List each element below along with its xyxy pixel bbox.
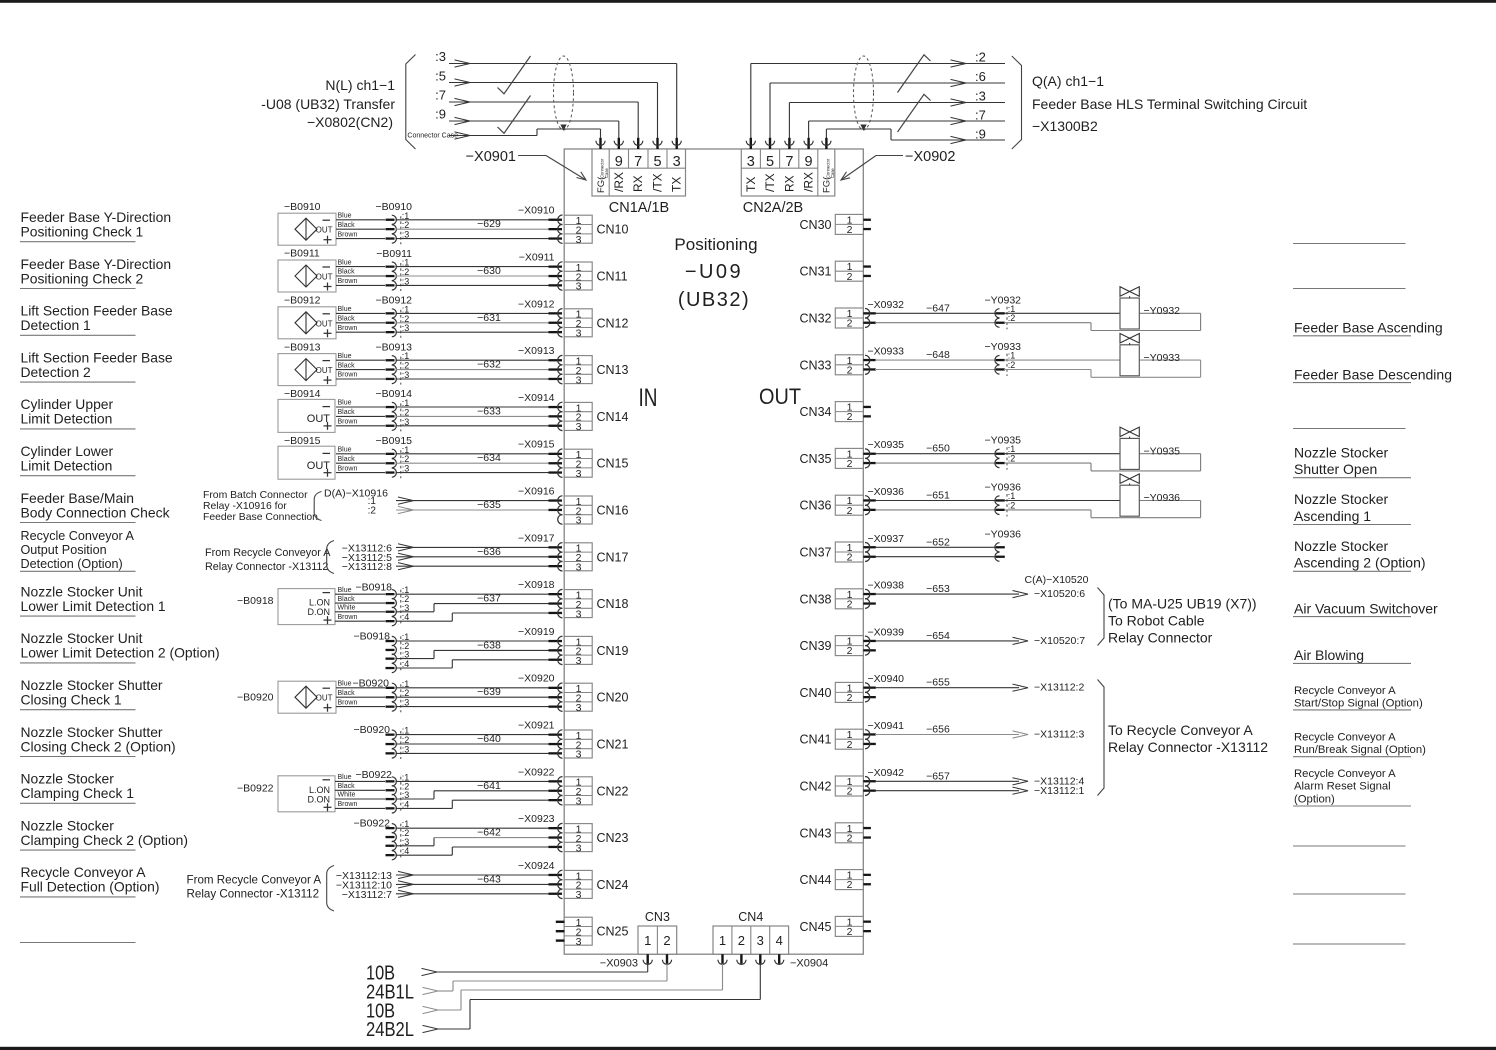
svg-text:Black: Black bbox=[338, 690, 356, 697]
svg-text:−X0802(CN2): −X0802(CN2) bbox=[307, 114, 393, 130]
underline CN42 label bbox=[1293, 805, 1411, 807]
svg-text:-U08 (UB32) Transfer: -U08 (UB32) Transfer bbox=[261, 96, 395, 112]
svg-text:−X0942: −X0942 bbox=[868, 767, 905, 779]
svg-text:OUT: OUT bbox=[759, 384, 801, 409]
wire CN2A FG to Q(A):9 bbox=[826, 129, 1005, 144]
pins CN15 bbox=[549, 449, 563, 477]
svg-text:Blue: Blue bbox=[338, 259, 352, 266]
svg-text:9: 9 bbox=[805, 154, 813, 170]
labels -X13112:4 -X13112:1 bbox=[1034, 775, 1084, 797]
label text CN33 function bbox=[1294, 366, 1452, 382]
svg-text:Recycle Conveyor A: Recycle Conveyor A bbox=[1294, 732, 1396, 744]
underline CN33 label bbox=[1293, 382, 1411, 384]
wires CN13 sensor to break bbox=[336, 360, 385, 379]
connector CN33 bbox=[835, 355, 863, 377]
svg-text:IN: IN bbox=[639, 384, 658, 412]
label text CN38 function bbox=[1294, 600, 1438, 616]
wire N(L):9 to CN1A pin 9 bbox=[449, 117, 619, 138]
svg-text:2: 2 bbox=[847, 786, 853, 798]
svg-text:Feeder Base Connection: Feeder Base Connection bbox=[203, 512, 318, 523]
svg-text:CN20: CN20 bbox=[597, 691, 629, 705]
svg-text:Closing Check 2 (Option): Closing Check 2 (Option) bbox=[21, 738, 176, 754]
underline CN45 empty label bbox=[1293, 943, 1406, 945]
svg-text:CN1A/1B: CN1A/1B bbox=[609, 200, 669, 216]
svg-text:−633: −633 bbox=[477, 405, 501, 417]
cable -630 wires to CN11 bbox=[396, 267, 554, 286]
connector CN43 bbox=[835, 823, 863, 845]
brace recycle connector bbox=[327, 541, 334, 574]
underline CN23 label bbox=[20, 849, 136, 851]
svg-text:5: 5 bbox=[653, 154, 661, 170]
wire CN38 to −X10520:6 bbox=[875, 591, 1028, 598]
sensor B0920 box bbox=[278, 681, 336, 713]
label text CN11 function bbox=[21, 256, 172, 287]
svg-text:3: 3 bbox=[576, 608, 582, 620]
connector CN41 bbox=[835, 729, 863, 751]
pins CN24 bbox=[549, 870, 563, 898]
svg-text:−X0919: −X0919 bbox=[518, 626, 555, 638]
svg-text:Relay Connector: Relay Connector bbox=[1108, 630, 1213, 646]
svg-text:2: 2 bbox=[738, 933, 745, 948]
underline CN36 label bbox=[1293, 524, 1411, 526]
cable break connector CN22 bbox=[386, 772, 410, 813]
svg-text:Feeder Base Ascending: Feeder Base Ascending bbox=[1294, 320, 1443, 336]
wires CN37 to break bbox=[875, 547, 996, 556]
wire color labels CN14 bbox=[338, 400, 358, 426]
underline CN22 label bbox=[20, 802, 136, 804]
svg-text:−X0914: −X0914 bbox=[518, 392, 555, 404]
brace recycle connector bbox=[327, 866, 334, 912]
wires break to valve -Y0933 bbox=[1004, 360, 1201, 377]
label text CN16 function bbox=[21, 490, 170, 521]
svg-text:2: 2 bbox=[847, 411, 853, 423]
svg-text:2: 2 bbox=[847, 645, 853, 657]
svg-text:−637: −637 bbox=[477, 593, 501, 605]
wires CN36 to break bbox=[875, 501, 996, 510]
svg-text:−X0903: −X0903 bbox=[600, 958, 638, 970]
svg-text:−Y0935: −Y0935 bbox=[1144, 445, 1181, 457]
pins CN19 bbox=[549, 636, 563, 664]
svg-text:Blue: Blue bbox=[338, 774, 352, 781]
svg-text:−X0911: −X0911 bbox=[519, 252, 555, 264]
svg-text:Case: Case bbox=[830, 168, 835, 178]
wire color labels CN10 bbox=[338, 213, 358, 239]
cable break connector CN18 bbox=[386, 585, 410, 626]
svg-text:CN18: CN18 bbox=[597, 597, 629, 611]
svg-text:−X0902: −X0902 bbox=[905, 149, 955, 165]
svg-text:−B0910: −B0910 bbox=[284, 201, 321, 213]
svg-text:CN12: CN12 bbox=[597, 316, 629, 330]
svg-text:Air Vacuum Switchover: Air Vacuum Switchover bbox=[1294, 600, 1438, 616]
svg-text:−X13112:7: −X13112:7 bbox=[342, 889, 392, 901]
labels X13112 pins bbox=[336, 870, 392, 901]
svg-text:−X0940: −X0940 bbox=[868, 673, 905, 685]
svg-text:−641: −641 bbox=[477, 780, 501, 792]
right harness pin labels bbox=[975, 50, 986, 142]
svg-text:−X0922: −X0922 bbox=[518, 766, 555, 778]
svg-text:−653: −653 bbox=[926, 583, 950, 595]
pins CN22 bbox=[549, 777, 563, 805]
svg-text:Full Detection (Option): Full Detection (Option) bbox=[21, 879, 160, 895]
svg-text:Positioning Check 1: Positioning Check 1 bbox=[21, 224, 144, 240]
svg-text:Case: Case bbox=[604, 168, 609, 178]
svg-text:TX: TX bbox=[670, 177, 684, 192]
svg-text:/TX: /TX bbox=[763, 173, 777, 192]
wires CN15 sensor to break bbox=[336, 454, 385, 473]
svg-text:Blue: Blue bbox=[338, 587, 352, 594]
svg-text:Detection 2: Detection 2 bbox=[21, 364, 92, 380]
svg-text:Recycle Conveyor A: Recycle Conveyor A bbox=[21, 529, 135, 543]
svg-text:From Recycle Conveyor A: From Recycle Conveyor A bbox=[205, 547, 331, 559]
connector CN12 bbox=[564, 309, 592, 340]
svg-text:−655: −655 bbox=[926, 677, 950, 689]
wires break to valve -Y0935 bbox=[1004, 454, 1201, 471]
label text CN20 function bbox=[21, 677, 163, 708]
connector CN44 bbox=[835, 870, 863, 892]
svg-text:Closing Check 1: Closing Check 1 bbox=[21, 692, 122, 708]
underline CN25 label bbox=[20, 942, 136, 944]
svg-text:2: 2 bbox=[847, 364, 853, 376]
svg-text:−Y0932: −Y0932 bbox=[985, 294, 1022, 306]
svg-text:2: 2 bbox=[847, 598, 853, 610]
left harness pin labels bbox=[407, 49, 458, 140]
pins CN33 bbox=[863, 355, 876, 374]
svg-text:−X0935: −X0935 bbox=[868, 439, 905, 451]
pins CN13 bbox=[549, 355, 563, 383]
svg-text:Limit Detection: Limit Detection bbox=[21, 458, 113, 474]
label text CN18 function bbox=[21, 583, 166, 614]
wire color labels CN13 bbox=[338, 353, 358, 379]
svg-text:−B0913: −B0913 bbox=[284, 341, 321, 353]
pins CN17 bbox=[549, 543, 563, 571]
label text CN19 function bbox=[21, 630, 220, 661]
connector CN30 bbox=[835, 214, 863, 236]
connector CN32 bbox=[835, 308, 863, 330]
svg-text:OUT: OUT bbox=[316, 319, 333, 328]
svg-text:OUT: OUT bbox=[316, 694, 333, 703]
label text CN40 function bbox=[1294, 685, 1423, 710]
twisted pair mark right 1 bbox=[898, 55, 931, 93]
svg-text:−X0913: −X0913 bbox=[518, 345, 555, 357]
cable break connector CN12 bbox=[386, 304, 410, 337]
svg-text:OUT: OUT bbox=[316, 273, 333, 282]
underline CN40 label bbox=[1293, 709, 1411, 711]
bottom border bar bbox=[0, 1047, 1496, 1050]
svg-text:CN15: CN15 bbox=[597, 457, 629, 471]
svg-text:−X0904: −X0904 bbox=[790, 958, 828, 970]
svg-text:Lower Limit Detection 1: Lower Limit Detection 1 bbox=[21, 598, 166, 614]
svg-text:−X0936: −X0936 bbox=[868, 486, 905, 498]
wire connector case to CN1A FG bbox=[449, 129, 601, 139]
svg-text:L.ON: L.ON bbox=[309, 785, 330, 795]
labels X13112 pins bbox=[342, 542, 392, 573]
svg-text:2: 2 bbox=[847, 926, 853, 938]
svg-text:(Option): (Option) bbox=[1294, 794, 1335, 806]
svg-text:−Y0932: −Y0932 bbox=[1144, 305, 1181, 317]
svg-text:From Batch Connector: From Batch Connector bbox=[203, 490, 308, 501]
svg-text:Blue: Blue bbox=[338, 681, 352, 688]
unit U09 main outline bbox=[564, 149, 863, 954]
stub pins CN45 bbox=[863, 921, 871, 933]
svg-text:−X10520:7: −X10520:7 bbox=[1034, 635, 1085, 647]
cable -641 wires to CN22 bbox=[396, 781, 554, 808]
svg-text:3: 3 bbox=[576, 655, 582, 667]
svg-text:Blue: Blue bbox=[338, 213, 352, 220]
svg-text:−629: −629 bbox=[477, 218, 501, 230]
svg-text:2: 2 bbox=[847, 505, 853, 517]
stub pins CN44 bbox=[863, 874, 871, 886]
pins CN16 bbox=[549, 496, 563, 524]
brace robot cable block bbox=[1098, 588, 1105, 646]
solenoid valve Y0936 bbox=[1120, 474, 1139, 516]
svg-text:3: 3 bbox=[576, 468, 582, 480]
cable -629 wires to CN10 bbox=[396, 220, 554, 239]
pin labels X10916 bbox=[368, 496, 377, 516]
underline CN11 label bbox=[20, 288, 136, 290]
connector CN24 bbox=[564, 870, 592, 901]
svg-text::3: :3 bbox=[435, 49, 446, 64]
svg-text:−X0912: −X0912 bbox=[518, 298, 555, 310]
brace left harness bbox=[406, 55, 416, 150]
svg-text::2: :2 bbox=[368, 506, 377, 517]
cable -637 wires to CN18 bbox=[396, 594, 554, 621]
svg-text:CN2A/2B: CN2A/2B bbox=[743, 200, 803, 216]
svg-text:−Y0933: −Y0933 bbox=[1144, 352, 1181, 364]
solenoid valve Y0932 bbox=[1120, 287, 1139, 329]
svg-text:CN35: CN35 bbox=[800, 452, 832, 466]
svg-text:Ascending 2 (Option): Ascending 2 (Option) bbox=[1294, 555, 1426, 571]
underline CN38 label bbox=[1293, 616, 1411, 618]
connector CN1A/1B bbox=[592, 149, 686, 196]
svg-text:Detection 1: Detection 1 bbox=[21, 317, 92, 333]
pins CN35 bbox=[863, 449, 876, 468]
svg-text:Blue: Blue bbox=[338, 353, 352, 360]
svg-text:−647: −647 bbox=[926, 302, 950, 314]
stub pins CN25 bbox=[556, 921, 565, 942]
svg-text:7: 7 bbox=[785, 154, 793, 170]
svg-text:−B0922: −B0922 bbox=[354, 818, 391, 830]
svg-text:White: White bbox=[338, 792, 356, 799]
connector CN39 bbox=[835, 636, 863, 658]
svg-text:CN11: CN11 bbox=[597, 270, 628, 284]
svg-text:4: 4 bbox=[776, 933, 783, 948]
underline CN20 label bbox=[20, 709, 136, 711]
wire 24B1L to CN3 pin2 bbox=[423, 964, 668, 995]
solenoid valve Y0933 bbox=[1120, 334, 1139, 376]
connector CN31 bbox=[835, 261, 863, 283]
svg-text:3: 3 bbox=[576, 796, 582, 808]
svg-text:−654: −654 bbox=[926, 630, 950, 642]
shield symbol left cable bbox=[554, 56, 574, 130]
underline CN31 empty label bbox=[1293, 288, 1406, 290]
svg-text:−X0918: −X0918 bbox=[518, 579, 555, 591]
svg-text:−X0933: −X0933 bbox=[868, 346, 905, 358]
cable -639 wires to CN20 bbox=[396, 688, 554, 707]
connector CN22 bbox=[564, 777, 592, 808]
svg-text:−X0917: −X0917 bbox=[518, 532, 555, 544]
svg-text:Relay Connector -X13112: Relay Connector -X13112 bbox=[187, 887, 320, 900]
label text CN37 function bbox=[1294, 538, 1426, 571]
svg-text:OUT: OUT bbox=[316, 226, 333, 235]
brace recycle conveyor block bbox=[1098, 680, 1105, 796]
wire CN39 to −X10520:7 bbox=[875, 637, 1028, 644]
top border bar bbox=[0, 0, 1496, 3]
svg-text:−B0914: −B0914 bbox=[284, 388, 321, 400]
svg-text:−X0932: −X0932 bbox=[868, 299, 905, 311]
svg-text:CN30: CN30 bbox=[800, 218, 832, 232]
wire color labels CN18 bbox=[338, 587, 358, 621]
svg-text::2: :2 bbox=[1008, 500, 1016, 510]
cable -638 wires to CN19 bbox=[396, 641, 554, 668]
svg-text:Recycle Conveyor A: Recycle Conveyor A bbox=[1294, 768, 1396, 780]
svg-text:−Y0935: −Y0935 bbox=[985, 435, 1022, 447]
svg-text:Shutter Open: Shutter Open bbox=[1294, 461, 1377, 477]
stub pins CN30 bbox=[863, 219, 871, 231]
underline CN32 label bbox=[1293, 335, 1411, 337]
cable -634 wires to CN15 bbox=[396, 454, 554, 473]
svg-text:Air Blowing: Air Blowing bbox=[1294, 647, 1364, 663]
svg-text:L.ON: L.ON bbox=[309, 598, 330, 608]
svg-text:1: 1 bbox=[719, 933, 726, 948]
svg-text:Nozzle Stocker: Nozzle Stocker bbox=[1294, 444, 1388, 460]
cable break connector CN20 bbox=[386, 679, 410, 712]
svg-text:−Y0936: −Y0936 bbox=[985, 528, 1022, 540]
solenoid valve Y0935 bbox=[1120, 427, 1139, 469]
label text CN13 function bbox=[21, 349, 173, 380]
svg-text:−B0911: −B0911 bbox=[284, 248, 320, 260]
connector CN34 bbox=[835, 402, 863, 424]
svg-text:Brown: Brown bbox=[338, 325, 358, 332]
label text CN35 function bbox=[1294, 444, 1388, 477]
svg-text:3: 3 bbox=[747, 154, 755, 170]
wire color labels CN12 bbox=[338, 306, 358, 332]
svg-text:−Y0936: −Y0936 bbox=[985, 482, 1022, 494]
svg-text:CN14: CN14 bbox=[597, 410, 629, 424]
label text CN32 function bbox=[1294, 320, 1443, 336]
svg-text:5: 5 bbox=[766, 154, 774, 170]
underline CN37 label bbox=[1293, 570, 1411, 572]
svg-text:CN16: CN16 bbox=[597, 504, 629, 518]
connector CN21 bbox=[564, 730, 592, 761]
svg-text:−X13112:8: −X13112:8 bbox=[342, 561, 392, 573]
svg-text:Clamping Check 2 (Option): Clamping Check 2 (Option) bbox=[21, 832, 189, 848]
cable break connector CN21 bbox=[386, 726, 410, 759]
svg-text::5: :5 bbox=[435, 69, 446, 84]
underline CN39 label bbox=[1293, 662, 1411, 664]
label text CN36 function bbox=[1294, 491, 1388, 524]
svg-text:−635: −635 bbox=[477, 499, 501, 511]
label text CN42 function bbox=[1294, 768, 1396, 806]
svg-text:3: 3 bbox=[576, 749, 582, 761]
svg-text:7: 7 bbox=[634, 154, 642, 170]
svg-text:From Recycle Conveyor A: From Recycle Conveyor A bbox=[187, 873, 322, 886]
svg-text:−X0924: −X0924 bbox=[518, 860, 555, 872]
svg-text:−X0920: −X0920 bbox=[518, 673, 555, 685]
svg-text:2: 2 bbox=[847, 552, 853, 564]
svg-text:−632: −632 bbox=[477, 359, 501, 371]
svg-text:Black: Black bbox=[338, 596, 356, 603]
svg-text:Ascending 1: Ascending 1 bbox=[1294, 508, 1371, 524]
svg-text:Brown: Brown bbox=[338, 465, 358, 472]
pins CN20 bbox=[549, 683, 563, 711]
connector CN37 bbox=[835, 542, 863, 564]
svg-text:CN31: CN31 bbox=[800, 265, 832, 279]
svg-text:−B0922: −B0922 bbox=[237, 782, 274, 794]
svg-text:Positioning Check 2: Positioning Check 2 bbox=[21, 270, 144, 286]
wire N(L):5 to CN1A pin 5 bbox=[449, 79, 658, 138]
twisted pair mark right 2 bbox=[898, 94, 931, 132]
connector CN35 bbox=[835, 448, 863, 470]
connector CN4 bbox=[713, 926, 789, 954]
underline CN24 label bbox=[20, 896, 136, 898]
sensor B0911 box bbox=[278, 260, 336, 292]
svg-text:TX: TX bbox=[744, 177, 758, 192]
underline CN43 empty label bbox=[1293, 845, 1406, 847]
svg-text::2: :2 bbox=[1008, 454, 1016, 464]
wires CN32 to break bbox=[875, 313, 996, 322]
wires CN18 sensor to break bbox=[335, 594, 385, 621]
label text recycle conveyor relay bbox=[1108, 722, 1268, 755]
wires CN35 to break bbox=[875, 454, 996, 463]
svg-text:−X0901: −X0901 bbox=[466, 149, 516, 165]
svg-text:CN19: CN19 bbox=[597, 644, 629, 658]
svg-text:2: 2 bbox=[663, 933, 670, 948]
svg-text:/RX: /RX bbox=[612, 172, 626, 192]
connector CN11 bbox=[564, 262, 592, 293]
connector CN23 bbox=[564, 824, 592, 855]
svg-text:Body Connection Check: Body Connection Check bbox=[21, 504, 170, 520]
svg-text:Black: Black bbox=[338, 269, 356, 276]
label N(L) ch1-1 block bbox=[261, 77, 395, 130]
svg-text:RX: RX bbox=[782, 175, 796, 192]
svg-text:−630: −630 bbox=[477, 265, 501, 277]
svg-text:−X0923: −X0923 bbox=[518, 813, 555, 825]
svg-text:Q(A) ch1−1: Q(A) ch1−1 bbox=[1032, 73, 1104, 89]
svg-text:−640: −640 bbox=[477, 733, 501, 745]
svg-text:Brown: Brown bbox=[338, 419, 358, 426]
svg-text:3: 3 bbox=[576, 842, 582, 854]
svg-text:−X1300B2: −X1300B2 bbox=[1032, 118, 1098, 134]
svg-text:Positioning: Positioning bbox=[674, 235, 757, 254]
underline CN15 label bbox=[20, 475, 136, 477]
svg-text:CN43: CN43 bbox=[800, 826, 832, 840]
pins CN40 bbox=[863, 683, 876, 702]
svg-text:−657: −657 bbox=[926, 770, 950, 782]
underline CN19 label bbox=[20, 662, 136, 664]
svg-text:−638: −638 bbox=[477, 639, 501, 651]
svg-text:−X0939: −X0939 bbox=[868, 626, 905, 638]
svg-text:CN33: CN33 bbox=[800, 358, 832, 372]
stub pins CN34 bbox=[863, 406, 871, 418]
connector CN10 bbox=[564, 215, 592, 246]
svg-text:3: 3 bbox=[576, 889, 582, 901]
svg-text:−X10520:6: −X10520:6 bbox=[1034, 588, 1085, 600]
wires CN20 sensor to break bbox=[336, 688, 385, 707]
pins CN11 bbox=[549, 262, 563, 290]
CN3 pin sockets bbox=[643, 954, 672, 964]
svg-text:2: 2 bbox=[847, 271, 853, 283]
svg-text:−648: −648 bbox=[926, 349, 950, 361]
svg-text:−B0918: −B0918 bbox=[356, 582, 393, 594]
cable -642 wires to CN23 bbox=[396, 828, 554, 855]
wires break to valve -Y0932 bbox=[1004, 313, 1201, 330]
connector CN38 bbox=[835, 589, 863, 611]
svg-text:Detection (Option): Detection (Option) bbox=[21, 557, 123, 571]
svg-text:Black: Black bbox=[338, 456, 356, 463]
sensor B0910 box bbox=[278, 213, 336, 245]
svg-text:2: 2 bbox=[847, 318, 853, 330]
svg-text:(To MA-U25 UB19 (X7)): (To MA-U25 UB19 (X7)) bbox=[1108, 596, 1257, 612]
